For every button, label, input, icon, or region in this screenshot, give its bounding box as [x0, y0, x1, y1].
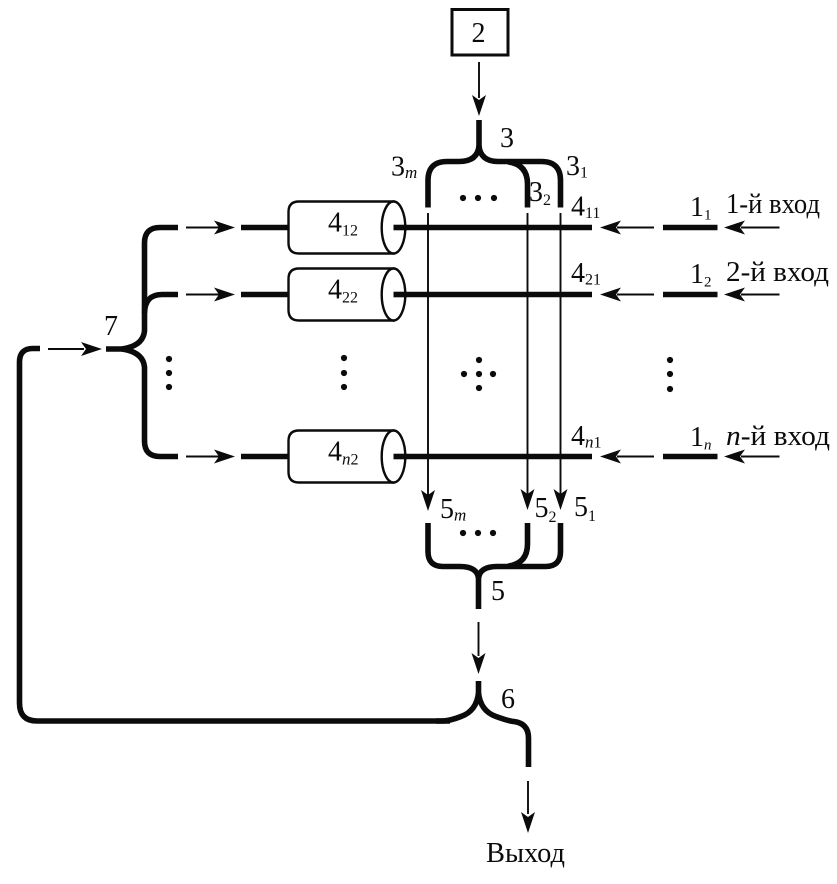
splitter 3 input stem — [476, 120, 482, 147]
svg-text:6: 6 — [501, 684, 515, 715]
coupler 6 input stub from 5 — [476, 681, 482, 695]
row 2 input arrow inner — [600, 288, 654, 302]
row 1 input arrow outer — [724, 221, 780, 235]
splitter 3 left arm to column m — [428, 146, 479, 208]
arrow from 2 to splitter 3 — [472, 62, 486, 116]
dashed arrow 6 to output — [521, 781, 535, 833]
dots right input column — [667, 357, 673, 392]
column line 2 — [521, 213, 535, 510]
svg-text:3: 3 — [500, 123, 514, 154]
combiner 5 output stem — [476, 576, 482, 609]
dots between splitter 3 branches — [460, 195, 497, 201]
row 1 wire right of cylinder — [394, 225, 593, 231]
column line m (thin vertical with bottom arrowhead) — [421, 213, 435, 511]
column line 1 — [554, 213, 568, 510]
row n input arrow inner — [600, 450, 654, 464]
splitter 7 lower arm to row n — [122, 349, 178, 457]
coupler 6 left arm joining loop — [436, 693, 479, 721]
dots splitter 7 branches — [166, 356, 172, 390]
svg-text:Выход: Выход — [486, 838, 565, 869]
row 2 wire right of cylinder — [394, 292, 593, 298]
row 1 dashed arrow from splitter 7 — [186, 221, 235, 235]
row n input fiber segment — [663, 454, 718, 460]
cylinder 4_n2 — [289, 431, 408, 483]
combiner 5 left arm from column m — [428, 523, 479, 578]
row 2 input arrow outer — [724, 288, 780, 302]
row 2 dashed arrow from splitter 7 — [186, 288, 235, 302]
splitter 7 upper arm to row 1 — [122, 228, 178, 350]
coupler 6 output arm down right — [479, 693, 529, 767]
splitter 7 input stub — [106, 346, 123, 352]
splitter 7 arm to row 2 — [145, 295, 179, 314]
svg-text:2: 2 — [472, 18, 486, 49]
row n wire right of cylinder — [394, 454, 593, 460]
row 2 wire left of cylinder — [241, 292, 295, 298]
row 1 wire left of cylinder — [241, 225, 295, 231]
loop input arrow to 7 — [48, 342, 102, 356]
svg-text:1-й вход: 1-й вход — [726, 189, 820, 220]
row 2 input fiber segment — [663, 292, 718, 298]
feedback loop wire (left and bottom) — [20, 349, 451, 722]
row n dashed arrow from splitter 7 — [186, 450, 235, 464]
row n input arrow outer — [724, 450, 780, 464]
dots between combiner 5 branches — [460, 530, 496, 536]
svg-text:5: 5 — [491, 576, 505, 607]
svg-text:n-й вход: n-й вход — [726, 421, 830, 452]
combiner 5 right arm from column 1 — [479, 523, 561, 578]
svg-text:7: 7 — [104, 311, 118, 342]
splitter 3 right arm to column 1 — [479, 146, 561, 208]
cylinder 4_22 — [289, 269, 408, 321]
combiner 5 middle arm from column 2 — [508, 523, 528, 566]
box 2 (source) — [452, 10, 508, 56]
cylinder 4_12 — [289, 202, 408, 254]
splitter 3 middle arm to column 2 — [508, 162, 528, 208]
dots under cylinders — [341, 355, 347, 390]
svg-text:2-й вход: 2-й вход — [726, 257, 829, 288]
dashed arrow 5 to 6 — [472, 622, 486, 674]
row 1 input fiber segment — [663, 225, 718, 231]
row n wire left of cylinder — [241, 454, 295, 460]
row 1 input arrow inner — [600, 221, 654, 235]
center dots (plus pattern) — [461, 357, 496, 391]
